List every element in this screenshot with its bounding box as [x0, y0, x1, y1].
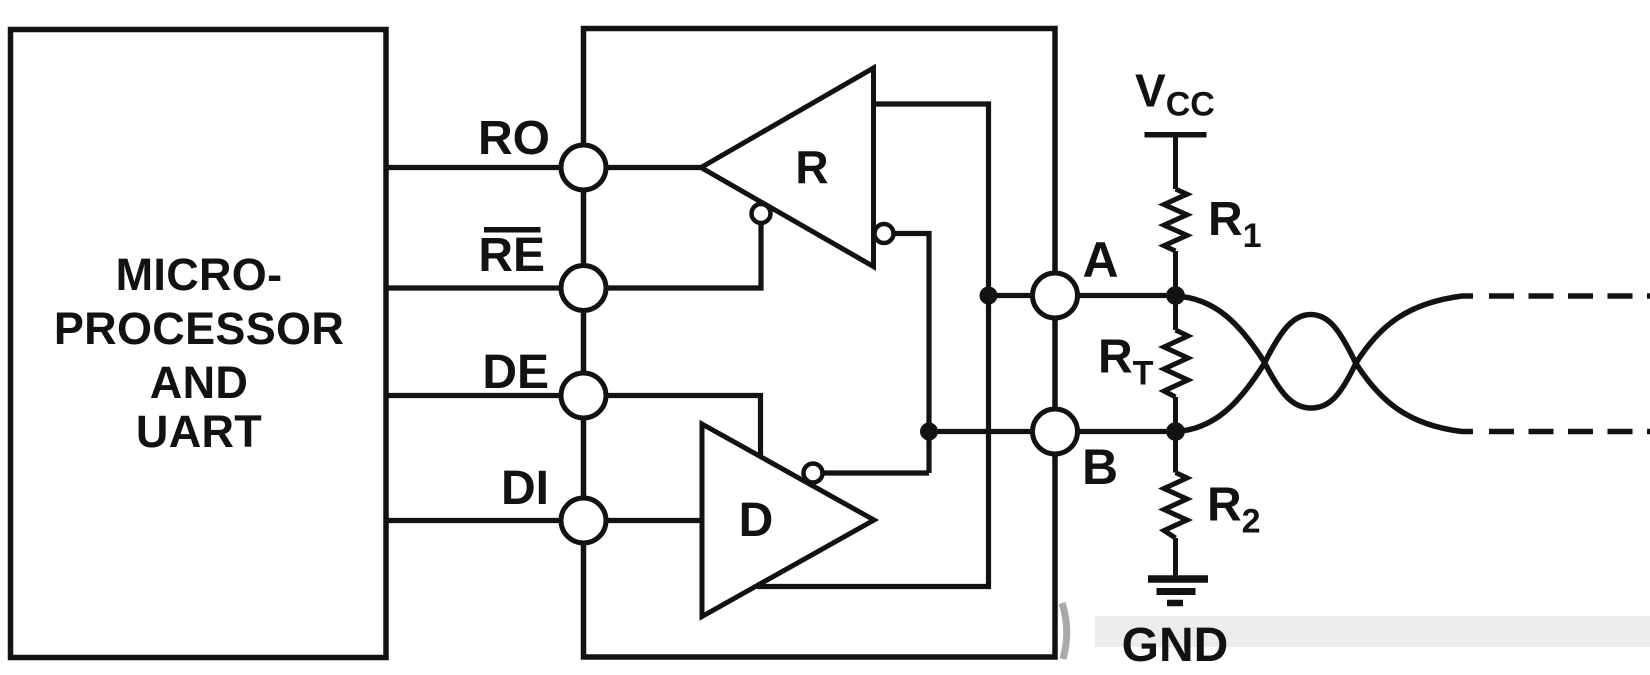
wire DE pin to driver enable: [584, 396, 761, 457]
wire RO: MCU to pin: [386, 165, 584, 170]
wire node A to RT: [1173, 296, 1178, 331]
dashed cable B: [1489, 429, 1650, 435]
svg-text:DI: DI: [501, 462, 549, 515]
wire DI: MCU to pin: [386, 518, 584, 523]
bubble driver inverting output: [804, 464, 823, 483]
twisted pair wire A: [1176, 296, 1474, 408]
wire /RE pin to receiver enable: [584, 224, 762, 288]
svg-text:AND: AND: [150, 357, 248, 408]
wire R2 to ground: [1173, 538, 1178, 579]
pin circle DE: [561, 373, 606, 418]
pin circle A: [1033, 273, 1078, 318]
junction dot driver output / node B: [920, 423, 938, 441]
svg-text:A: A: [1082, 232, 1118, 288]
junction dot node B: [1166, 422, 1185, 441]
junction dot receiver input / node A: [980, 287, 998, 305]
wire R1 to node A: [1173, 251, 1178, 296]
resistor R2: [1164, 473, 1187, 539]
twisted pair wire B: [1176, 315, 1474, 432]
ground: [1148, 579, 1208, 603]
bubble receiver enable: [752, 204, 771, 223]
driver D: [702, 424, 874, 617]
overline of RE: [484, 227, 541, 233]
svg-text:PROCESSOR: PROCESSOR: [54, 303, 344, 354]
wire DI pin to driver input: [584, 518, 703, 523]
svg-text:D: D: [739, 494, 774, 547]
bubble receiver inverting input: [875, 224, 894, 243]
svg-text:DE: DE: [482, 346, 549, 399]
Vcc rail bar: [1145, 132, 1207, 138]
wire receiver noninverting input to node A: [757, 104, 989, 587]
watermark band artifact: [1095, 616, 1650, 647]
pin circle /RE: [561, 266, 606, 311]
wire Vcc to R1: [1173, 135, 1178, 189]
svg-text:GND: GND: [1122, 619, 1229, 670]
resistor R1: [1164, 189, 1187, 251]
watermark sliver artifact: [1062, 603, 1067, 659]
svg-text:RO: RO: [478, 112, 550, 165]
svg-text:RE: RE: [478, 229, 545, 282]
dashed cable A: [1489, 293, 1650, 299]
wire node B horizontal: [929, 429, 1176, 434]
pin circle B: [1033, 409, 1078, 454]
wire node B to R2: [1173, 432, 1178, 473]
wire receiver inverting input to node B: [896, 234, 930, 474]
svg-text:MICRO-: MICRO-: [116, 249, 283, 300]
receiver R: [701, 68, 874, 267]
svg-text:UART: UART: [136, 406, 262, 457]
svg-text:B: B: [1082, 439, 1118, 495]
junction dot node A: [1166, 286, 1185, 305]
svg-text:R: R: [795, 141, 828, 193]
label MICRO-PROCESSOR AND UART: [54, 249, 344, 457]
transceiver box U1: [584, 29, 1056, 658]
wire RO pin to receiver output: [584, 165, 702, 170]
resistor RT: [1164, 330, 1188, 397]
wire RT to node B: [1173, 397, 1178, 432]
wire driver inverting output to node B: [823, 470, 930, 475]
wire /RE: MCU to pin: [386, 285, 584, 290]
pin circle DI: [561, 498, 606, 543]
wire DE: MCU to pin: [386, 393, 584, 398]
wire node A horizontal: [989, 293, 1177, 298]
microprocessor box U-MCU: [11, 30, 387, 658]
pin circle RO: [561, 145, 606, 190]
